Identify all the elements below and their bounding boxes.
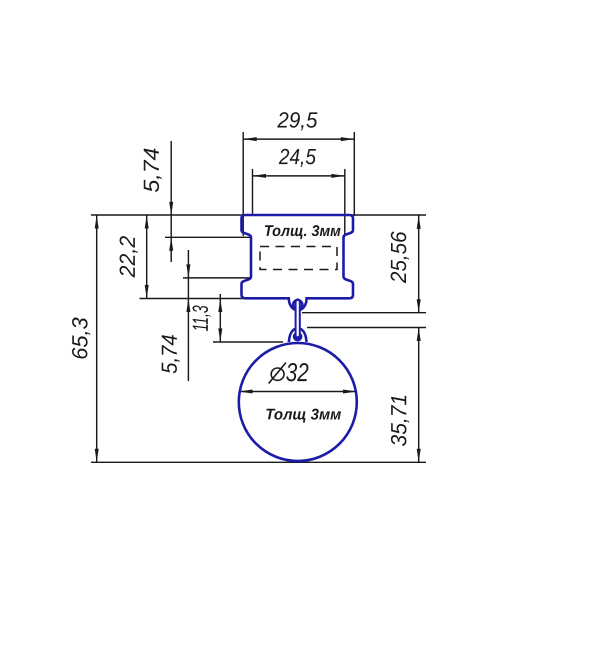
arrow 5,74 lower top, outside pointing down — [186, 264, 190, 278]
extension line lower tab top — [307, 327, 426, 329]
dashed hole rectangle inside block — [260, 247, 337, 270]
extension line notch bottom — [165, 236, 252, 238]
arrow 5,74 upper bottom, outside pointing up — [169, 237, 173, 251]
lower ring (filled hub where link meets lower tab) — [293, 332, 303, 342]
arrow 24,5 left — [253, 174, 267, 178]
svg-text:65,3: 65,3 — [67, 317, 92, 360]
dimension line diameter 32 — [239, 391, 357, 393]
svg-text:24,5: 24,5 — [278, 144, 317, 169]
svg-text:35,71: 35,71 — [386, 394, 411, 447]
diameter symbol circle — [269, 363, 286, 384]
dimension line 25,56 — [418, 215, 420, 312]
dimension line 5,74 lower — [187, 250, 189, 381]
svg-text:Толщ. 3мм: Толщ. 3мм — [264, 223, 341, 240]
arrow 24,5 right — [331, 174, 345, 178]
extension line 24,5 left — [252, 169, 254, 215]
dimension line 22,2 — [146, 215, 148, 298]
svg-text:5,74: 5,74 — [139, 148, 164, 193]
svg-text:25,56: 25,56 — [386, 231, 411, 284]
arrow 25,56 top — [417, 215, 421, 229]
arrow 25,56 bottom — [417, 299, 421, 313]
arrow 11,3 bottom — [218, 328, 222, 342]
extension line circle top — [213, 341, 283, 343]
arrow 11,3 top — [218, 299, 222, 313]
extension line 29,5 left — [242, 132, 244, 236]
svg-text:22,2: 22,2 — [115, 236, 140, 278]
svg-text:5,74: 5,74 — [157, 334, 182, 374]
upper ring (hole rim in tab) — [293, 300, 302, 309]
arrow 35,71 top — [417, 328, 421, 342]
connecting link capsule outer — [295, 302, 301, 337]
extension line top (block top level) — [91, 214, 426, 216]
arrow dia32 left — [239, 390, 253, 394]
extension line bottom (circle bottom level) — [91, 461, 426, 463]
dimension line 29,5 — [243, 138, 354, 140]
dimension line 35,71 — [418, 328, 420, 463]
dimension line 5,74 upper — [170, 141, 172, 262]
extension line flange top — [183, 277, 252, 279]
connecting link capsule white core — [297, 302, 299, 335]
lower tab arch on circle — [289, 328, 307, 342]
medal circle d=32 — [239, 343, 357, 461]
arrow 5,74 lower bottom, outside pointing up — [186, 299, 190, 313]
arrow 29,5 right — [341, 137, 355, 141]
svg-text:11,3: 11,3 — [188, 305, 213, 331]
svg-text:Толщ 3мм: Толщ 3мм — [265, 406, 342, 423]
arrow dia32 right — [343, 390, 357, 394]
arrow 5,74 upper top, outside pointing down — [169, 202, 173, 216]
part outline: spool-shaped block with bottom tab — [242, 215, 354, 310]
arrow 65,3 top — [95, 215, 99, 229]
dimension line 65,3 — [96, 215, 98, 462]
extension line 24,5 right — [344, 169, 346, 235]
arrow 35,71 bottom — [417, 449, 421, 463]
svg-text:32: 32 — [286, 357, 309, 387]
arrow 22,2 top — [145, 215, 149, 229]
svg-text:29,5: 29,5 — [276, 107, 318, 132]
dimension line 11,3 — [219, 294, 221, 342]
arrow 65,3 bottom — [95, 449, 99, 463]
diameter symbol slash — [269, 363, 286, 384]
extension line 29,5 right — [353, 132, 355, 216]
extension line upper tab bottom — [302, 312, 426, 314]
arrow 29,5 left — [243, 137, 257, 141]
arrow 22,2 bottom — [145, 285, 149, 299]
dimension line 24,5 — [253, 175, 345, 177]
extension line block bottom — [140, 298, 290, 300]
